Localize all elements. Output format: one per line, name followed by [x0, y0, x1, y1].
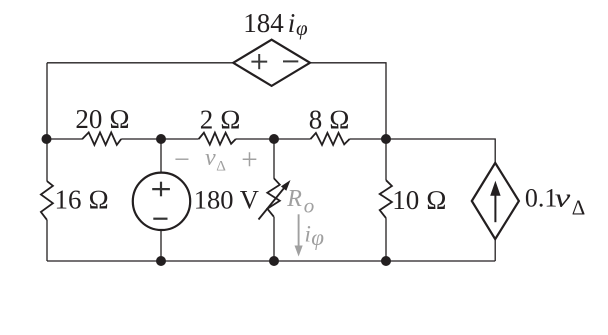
- svg-text:8 Ω: 8 Ω: [309, 105, 350, 135]
- svg-text:i: i: [305, 221, 311, 246]
- svg-text:180 V: 180 V: [194, 185, 259, 215]
- svg-text:20 Ω: 20 Ω: [75, 104, 130, 134]
- svg-text:v: v: [555, 184, 571, 213]
- svg-text:i: i: [288, 8, 296, 38]
- svg-text:φ: φ: [296, 16, 308, 40]
- svg-text:v: v: [205, 145, 216, 171]
- svg-text:10 Ω: 10 Ω: [392, 185, 447, 215]
- svg-text:16 Ω: 16 Ω: [55, 185, 110, 215]
- svg-text:o: o: [304, 193, 315, 217]
- svg-text:φ: φ: [311, 225, 324, 250]
- svg-text:184: 184: [243, 8, 284, 38]
- svg-text:0.1: 0.1: [525, 184, 558, 213]
- svg-text:Δ: Δ: [572, 195, 586, 219]
- svg-text:−: −: [174, 144, 190, 175]
- svg-text:2 Ω: 2 Ω: [200, 105, 241, 135]
- svg-text:Δ: Δ: [216, 158, 226, 174]
- svg-text:+: +: [241, 143, 257, 176]
- svg-text:R: R: [286, 186, 302, 212]
